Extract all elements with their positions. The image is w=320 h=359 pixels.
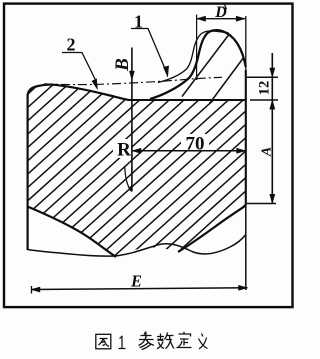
figure frame border (4, 4, 293, 308)
svg-text:R: R (117, 140, 131, 161)
part outline: tread surface curve (28, 85, 129, 100)
12/A bottom arrow (pointing up) (270, 100, 275, 109)
svg-text:1: 1 (134, 12, 143, 32)
12 top arrow (outside, pointing down) (270, 68, 275, 77)
white gap behind 70 text (181, 134, 209, 150)
svg-text:E: E (130, 272, 142, 291)
1 (119, 336, 126, 349)
图 (96, 334, 111, 349)
dim line for 12 and A (271, 53, 273, 204)
part outline: left edge (27, 94, 29, 250)
bottom narrow open arrow (125, 166, 132, 192)
数 (157, 333, 174, 349)
hump interior hatch lines (182, 31, 244, 104)
label 2 leader (62, 53, 98, 90)
section hatching (0, 80, 320, 262)
svg-text:A: A (260, 147, 275, 157)
white gap behind R text (113, 139, 131, 158)
svg-text:12: 12 (257, 81, 273, 96)
right edge vertical line (D extension + body edge + E extension) (245, 16, 247, 70)
svg-text:B: B (112, 58, 133, 72)
bottom-right thick boundary curve (178, 206, 246, 253)
part outline: flange top face line (128, 99, 246, 101)
dash-dot reference line (44, 77, 222, 84)
label 1 leader (131, 29, 169, 78)
dimension 70: dim line with outward arrows (132, 148, 246, 153)
定 (178, 332, 192, 348)
bottom wavy break line (28, 235, 246, 257)
参 (139, 332, 155, 350)
bottom-left thick boundary curve (28, 207, 117, 258)
hump outer thick curve (150, 30, 246, 99)
svg-text:2: 2 (67, 35, 76, 55)
hump inner thin curve (worn profile) (158, 31, 229, 83)
svg-text:70: 70 (186, 134, 205, 155)
义 (199, 334, 208, 349)
dimension D: dim line with outward arrows (197, 15, 246, 81)
B/R vertical line (125, 48, 135, 192)
caption: hand-drawn CJK glyphs 图1 参数定义 (96, 332, 208, 350)
dimension A: bottom extension and arrow (247, 194, 276, 203)
dimension E: dim line with outward arrows (31, 285, 248, 293)
svg-text:D: D (214, 4, 227, 21)
B arrow pointing down at reference line (129, 71, 134, 80)
D prime tick (225, 5, 227, 10)
dimension 12: extension lines (247, 53, 278, 204)
